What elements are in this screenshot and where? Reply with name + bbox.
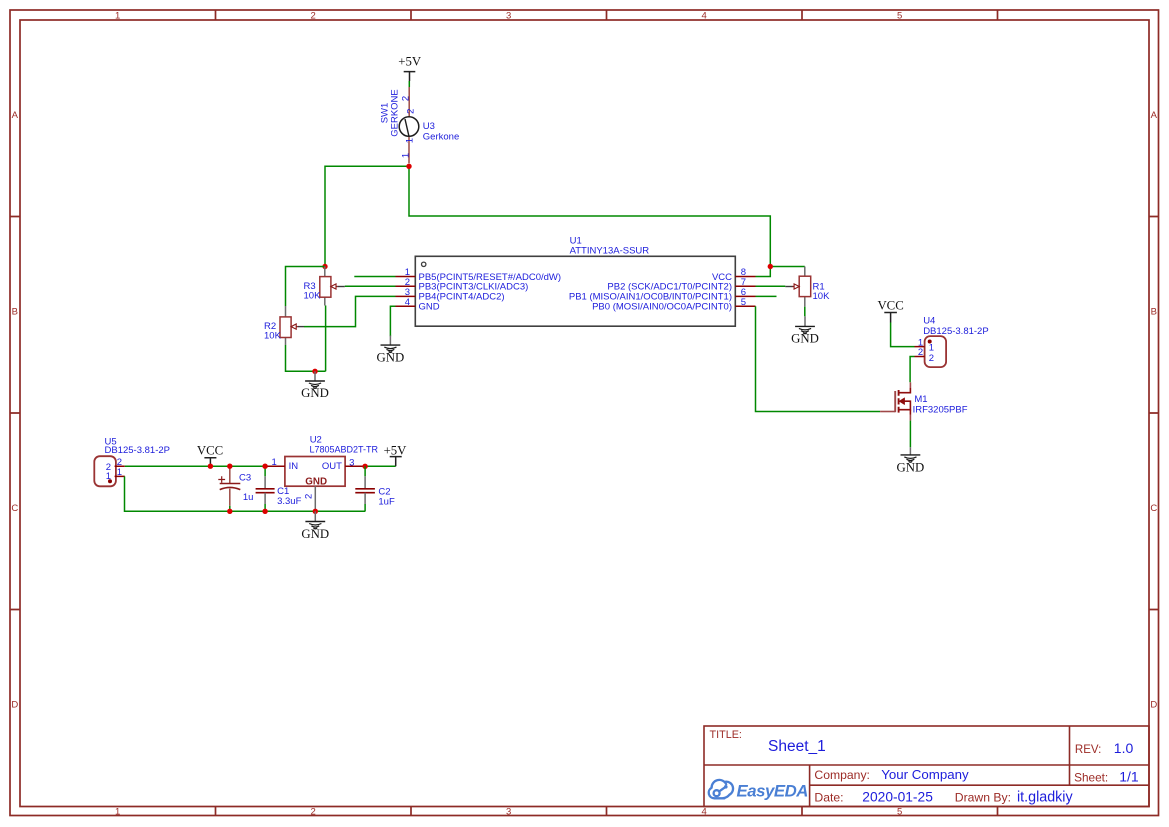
svg-text:L7805ABD2T-TR: L7805ABD2T-TR — [310, 445, 379, 455]
wire U5 pin1 to bottom rail — [125, 476, 366, 511]
mosfet M1 IRF3205PBF — [880, 382, 968, 420]
wire R1 bottom — [804, 307, 806, 317]
svg-text:ATTINY13A-SSUR: ATTINY13A-SSUR — [570, 245, 650, 256]
pin 3 stub — [396, 295, 416, 297]
svg-text:VCC: VCC — [197, 444, 223, 458]
svg-text:3: 3 — [506, 10, 511, 21]
svg-text:IN: IN — [289, 461, 299, 472]
svg-text:1.0: 1.0 — [1114, 740, 1134, 756]
svg-text:1u: 1u — [243, 492, 254, 503]
svg-text:2: 2 — [303, 494, 314, 499]
pin 2 stub — [396, 285, 416, 287]
ground under U2 — [301, 511, 329, 541]
svg-text:B: B — [1151, 307, 1157, 318]
wire VCC dot to R1 — [770, 266, 805, 268]
title block text — [710, 729, 1139, 805]
connector U5 DB125-3.81-2P — [94, 436, 170, 486]
pin 6 stub — [735, 295, 755, 297]
junction OUT/C2 — [362, 464, 367, 469]
svg-text:TITLE:: TITLE: — [710, 729, 742, 741]
resistor R3 10K potentiometer — [304, 267, 345, 306]
ground under R1 — [791, 316, 819, 345]
svg-text:D: D — [1150, 700, 1157, 711]
svg-text:GND: GND — [305, 476, 327, 487]
wire pin6 stub (dead end) — [756, 295, 777, 297]
svg-text:GND: GND — [419, 302, 440, 313]
svg-text:U3: U3 — [423, 121, 435, 132]
svg-text:Sheet:: Sheet: — [1074, 770, 1108, 784]
ground under R2/R3 — [301, 371, 329, 400]
svg-text:Company:: Company: — [814, 768, 870, 782]
connector U4 DB125-3.81-2P — [915, 315, 989, 367]
svg-text:D: D — [11, 700, 18, 711]
wire bottom rail R2/R3 to gnd — [286, 345, 326, 371]
junction C3 top — [227, 464, 232, 469]
svg-text:1: 1 — [272, 457, 277, 468]
wire U4 pin2 to M1 drain — [910, 357, 914, 383]
svg-text:it.gladkiy: it.gladkiy — [1017, 789, 1073, 805]
svg-text:REV:: REV: — [1075, 744, 1101, 756]
wire pin3 to R2 wiper — [304, 296, 396, 326]
wire pin1 stub (dead end) — [354, 276, 395, 278]
pin 5 stub — [735, 305, 755, 307]
svg-text:1: 1 — [106, 471, 111, 482]
power symbol VCC left — [197, 444, 223, 467]
wire junction to R3 column — [325, 166, 409, 266]
svg-text:2: 2 — [311, 806, 316, 817]
wire VCC to U4 pin1 — [891, 323, 915, 347]
svg-text:1: 1 — [929, 343, 934, 354]
svg-text:GND: GND — [791, 332, 819, 346]
svg-text:OUT: OUT — [322, 461, 342, 472]
wire pin5 to M1 gate — [756, 306, 881, 411]
svg-text:3: 3 — [349, 457, 354, 468]
svg-text:Date:: Date: — [814, 790, 843, 804]
svg-text:1: 1 — [115, 806, 120, 817]
wire U5 pin2 input rail — [125, 465, 268, 467]
right pin names — [569, 272, 732, 313]
resistor R1 10K potentiometer — [785, 267, 830, 307]
svg-text:GND: GND — [301, 527, 329, 541]
svg-text:A: A — [1151, 110, 1158, 121]
svg-text:1: 1 — [400, 153, 411, 158]
power symbol +5V right — [384, 444, 408, 467]
svg-text:1uF: 1uF — [378, 496, 395, 507]
wire R3 dot to R2 top — [286, 267, 326, 307]
svg-text:GND: GND — [301, 386, 329, 400]
junction C1 bottom — [262, 509, 267, 514]
svg-text:Sheet_1: Sheet_1 — [768, 738, 826, 755]
svg-text:4: 4 — [702, 806, 707, 817]
pin numbers 1-4 — [405, 267, 410, 308]
svg-text:U4: U4 — [923, 315, 935, 326]
wire pin7 to R1 wiper — [756, 285, 786, 287]
junction at VCC/pin8 — [768, 264, 773, 269]
svg-text:A: A — [12, 110, 19, 121]
wire M1 source to gnd — [909, 421, 911, 448]
wire pin4 to ground — [390, 306, 395, 336]
svg-text:Your Company: Your Company — [881, 767, 969, 782]
svg-text:10K: 10K — [304, 290, 322, 301]
junction U2 gnd — [313, 509, 318, 514]
svg-text:1: 1 — [117, 467, 122, 478]
svg-text:GND: GND — [897, 461, 925, 475]
svg-text:GND: GND — [377, 350, 405, 364]
left pin names — [419, 272, 562, 313]
svg-text:DB125-3.81-2P: DB125-3.81-2P — [105, 445, 170, 456]
IC U1 ATTINY13A-SSUR — [396, 235, 756, 326]
capacitor C2 1uF — [355, 466, 395, 511]
svg-text:2: 2 — [406, 109, 417, 114]
svg-text:IRF3205PBF: IRF3205PBF — [913, 404, 968, 415]
pin numbers 8-5 — [741, 267, 746, 308]
capacitor C3 1u polarized — [218, 466, 253, 511]
power symbol +5V top — [398, 55, 422, 81]
svg-text:GERKONE: GERKONE — [390, 89, 401, 137]
svg-text:2: 2 — [929, 353, 934, 364]
svg-text:5: 5 — [741, 297, 746, 308]
junction VCC on rail — [208, 464, 213, 469]
svg-text:5: 5 — [897, 806, 902, 817]
title block — [704, 726, 1149, 807]
svg-text:4: 4 — [405, 297, 410, 308]
svg-text:PB0 (MOSI/AIN0/OC0A/PCINT0): PB0 (MOSI/AIN0/OC0A/PCINT0) — [592, 302, 732, 313]
svg-text:3.3uF: 3.3uF — [277, 496, 301, 507]
junction at R3 top — [322, 264, 327, 269]
svg-text:EasyEDA: EasyEDA — [737, 781, 808, 800]
junction C1 top — [262, 464, 267, 469]
svg-text:10K: 10K — [813, 291, 831, 302]
svg-text:Gerkone: Gerkone — [423, 132, 459, 143]
svg-text:3: 3 — [506, 806, 511, 817]
svg-text:2020-01-25: 2020-01-25 — [862, 789, 933, 804]
svg-text:1: 1 — [115, 10, 120, 21]
svg-text:+5V: +5V — [398, 55, 422, 69]
junction at gnd rail — [312, 369, 317, 374]
power symbol VCC right — [877, 299, 903, 323]
svg-text:1/1: 1/1 — [1119, 768, 1139, 784]
svg-text:C: C — [1150, 503, 1157, 514]
svg-text:1: 1 — [405, 138, 416, 143]
wire pin2 to R3 wiper — [345, 285, 396, 287]
svg-text:B: B — [12, 307, 18, 318]
svg-text:2: 2 — [311, 10, 316, 21]
wire U2 out to +5V — [363, 465, 396, 467]
junction C3 bottom — [227, 509, 232, 514]
svg-text:10K: 10K — [264, 331, 282, 342]
svg-text:M1: M1 — [914, 394, 927, 405]
svg-text:5: 5 — [897, 10, 902, 21]
wire +5V to switch pin2 — [408, 81, 410, 87]
wire R3 bottom down — [325, 306, 327, 372]
pin 8 stub — [735, 276, 755, 278]
junction at switch — [406, 164, 411, 169]
svg-text:DB125-3.81-2P: DB125-3.81-2P — [923, 326, 988, 337]
ground under pin4 — [377, 336, 405, 365]
capacitor C1 3.3uF — [256, 466, 302, 511]
regulator U2 L7805ABD2T-TR — [268, 435, 379, 512]
svg-text:C: C — [11, 503, 18, 514]
EasyEDA logo — [709, 780, 808, 800]
reed switch SW1 U3 Gerkone — [380, 87, 460, 163]
svg-text:C3: C3 — [239, 472, 251, 483]
svg-text:Drawn By:: Drawn By: — [955, 790, 1011, 804]
svg-text:2: 2 — [400, 96, 411, 101]
ground under M1 — [897, 447, 925, 474]
svg-text:2: 2 — [918, 347, 923, 358]
svg-text:4: 4 — [702, 10, 707, 21]
pin 1 stub — [396, 276, 416, 278]
wire junction to VCC rail right — [409, 166, 770, 266]
wire VCC dot to pin8 — [756, 267, 771, 277]
svg-text:+5V: +5V — [384, 444, 408, 458]
pin 4 stub — [396, 305, 416, 307]
svg-text:VCC: VCC — [877, 299, 903, 313]
pin 7 stub — [735, 285, 755, 287]
resistor R2 10K potentiometer — [264, 306, 304, 345]
